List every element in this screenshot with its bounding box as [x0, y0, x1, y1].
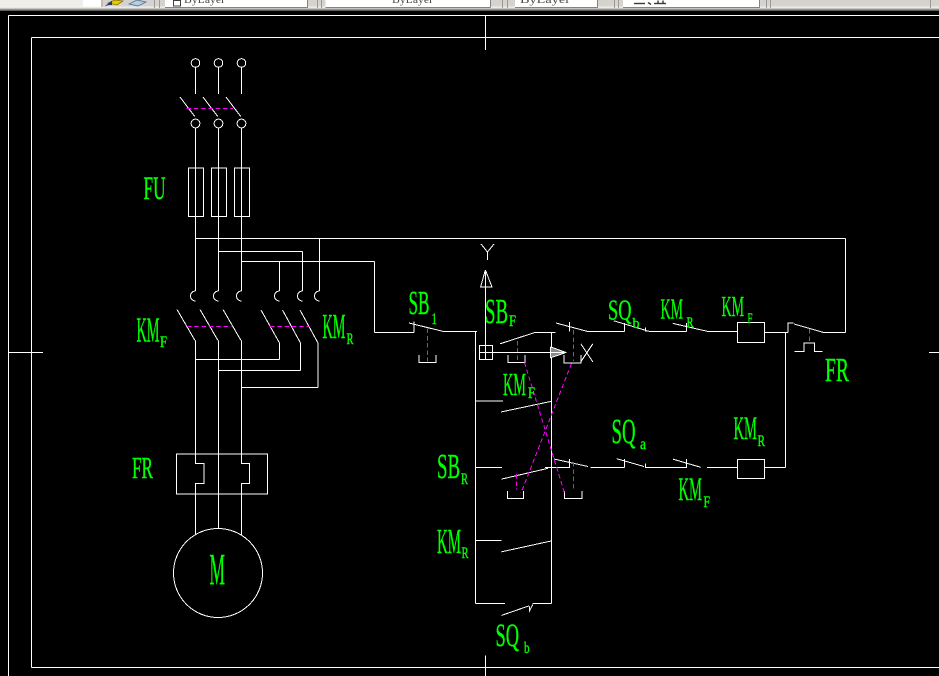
contact KM_F aux blade: [501, 401, 552, 412]
FR actuator dashed: [809, 329, 811, 343]
wire coil to FR junction: [765, 332, 789, 334]
contactor KM_F contact arc 2: [214, 291, 219, 301]
svg-text:SQ: SQ: [612, 412, 636, 451]
wire L1 stem: [195, 67, 197, 94]
wire to motor 1: [195, 494, 197, 535]
inner border top: [32, 37, 939, 39]
limit switch SQ_b blade: [614, 321, 647, 331]
wire KM_F 2 down: [218, 341, 220, 455]
icon: layers (blue diamond): [129, 0, 146, 6]
SQ_b hook: [646, 328, 650, 332]
thermal relay FR box: [177, 454, 268, 494]
branch SQ_b wire: [476, 603, 505, 605]
contactor KM_R contact arc 3: [315, 291, 320, 301]
coil KM_R box: [738, 460, 765, 479]
svg-text:M: M: [210, 545, 226, 594]
centering tick right: [929, 352, 939, 354]
button SB_R bracket (rung1): [564, 355, 581, 363]
limit switch SQ_b (bottom) blade: [502, 606, 530, 616]
svg-text:b: b: [633, 316, 640, 332]
wire KM_F 3 down: [241, 341, 243, 455]
wire through fuse 3 down to contact arc: [241, 168, 243, 291]
svg-text:FR: FR: [825, 352, 849, 389]
rung2 wire mid: [545, 467, 570, 469]
limit switch SQ_b tick: [624, 323, 626, 332]
button SB_F bracket (rung2): [564, 491, 582, 499]
motor M circle: [174, 529, 263, 618]
wire stub to KM_R contact 3: [319, 239, 321, 292]
contact SB_R NC blade (rung1): [556, 323, 587, 331]
rung2 wire to SQ_a: [591, 467, 625, 469]
wire L3 stem: [241, 67, 243, 94]
svg-text:KM: KM: [734, 411, 758, 447]
SB_R long link dashed: [521, 364, 572, 494]
supply terminal L3: [237, 59, 246, 68]
toolbar strip: [0, 0, 939, 11]
node L2 tap: [219, 251, 303, 253]
wire KM_R 3 down: [317, 343, 319, 388]
contactor KM_F contact arc 3: [237, 291, 242, 301]
contactor KM_F contact arc 1: [191, 291, 196, 301]
contact FR NC post: [787, 324, 789, 333]
UCS X letter: [581, 344, 593, 362]
UCS Y axis line: [485, 287, 487, 360]
cross link wire V: [219, 370, 301, 372]
UCS X arrowhead: [551, 347, 566, 358]
svg-text:R: R: [461, 471, 468, 488]
contactor KM_F blade 2: [200, 310, 218, 341]
wire from L3 tap down: [374, 262, 376, 333]
contactor KM_F blade 3: [223, 310, 241, 341]
contactor KM_R contact arc 2: [298, 291, 303, 301]
centering tick top: [485, 16, 487, 51]
svg-text:KM: KM: [323, 307, 346, 346]
button SB1 terminal tick: [413, 322, 415, 333]
switch QS blade 3: [226, 97, 241, 117]
svg-text:F: F: [748, 311, 753, 327]
icon: make layer current (yellow diamond + arrow): [108, 0, 123, 5]
UCS origin box: [480, 346, 493, 360]
wire KM_F 1 down: [195, 341, 197, 455]
wire below QS 2: [218, 128, 220, 168]
wire SB_F to mid: [534, 332, 556, 334]
svg-text:KM: KM: [661, 294, 684, 326]
button SB_R bracket (rung2): [508, 491, 524, 499]
svg-text:b: b: [524, 640, 530, 657]
switch QS blade 1: [180, 97, 195, 117]
outer border left: [8, 16, 10, 676]
branch KM_F aux wire: [476, 400, 504, 402]
node L3 tap: [242, 261, 375, 263]
svg-text:a: a: [640, 436, 646, 453]
button SB1 blade: [409, 323, 444, 332]
centering tick left: [9, 352, 44, 354]
svg-text:SB: SB: [485, 292, 508, 331]
switch QS blade 2: [203, 97, 218, 117]
right rail vertical: [845, 239, 847, 333]
color swatch in combo: [174, 1, 181, 7]
svg-text:F: F: [160, 334, 167, 351]
svg-text:ByLayer: ByLayer: [184, 0, 225, 6]
node L1 tap / control rail top: [196, 238, 846, 240]
contactor KM_F blade 1: [177, 310, 195, 341]
contact KM_F NC post: [686, 459, 688, 468]
svg-text:KM: KM: [437, 522, 461, 561]
wire below QS 3: [241, 128, 243, 168]
contactor KM_R blade 3: [300, 310, 318, 343]
contact KM_R aux blade: [502, 541, 552, 552]
rung2 wire from rail: [476, 467, 503, 469]
wire SB1 to rail: [444, 331, 478, 333]
svg-text:FR: FR: [132, 450, 153, 485]
SQ_b bottom arrow: [529, 605, 533, 611]
svg-text:ByLayer: ByLayer: [520, 0, 570, 6]
KM_F linkage dashed: [187, 326, 232, 328]
switch QS lower contact 2: [214, 119, 223, 128]
contact FR NC start dash: [787, 322, 793, 324]
SB_R NO actuator dashed (rung2): [515, 474, 517, 490]
svg-text:R: R: [347, 331, 354, 348]
svg-text:F: F: [528, 385, 535, 402]
wire coil KM_R out: [765, 467, 786, 469]
wire below QS 1: [195, 128, 197, 168]
wire to coil KM_R: [707, 467, 737, 469]
contactor KM_R contact arc 1: [275, 291, 280, 301]
svg-text:SB: SB: [437, 447, 460, 486]
UCS Y letter: [481, 244, 494, 260]
svg-text:F: F: [704, 494, 711, 511]
svg-text:R: R: [687, 315, 694, 331]
contact KM_F NC blade: [673, 459, 701, 467]
mid vertical rail: [551, 332, 553, 604]
wire through fuse 1 down to contact arc: [195, 168, 197, 291]
UCS icon: [480, 244, 593, 362]
SB_R NC actuator dashed (rung1): [573, 330, 575, 361]
contact SB_F NC blade (rung2): [554, 459, 588, 467]
dashed linkages (control): [428, 329, 810, 494]
KM_R linkage dashed: [270, 326, 310, 328]
wire stub to KM_R contact 1: [279, 262, 281, 292]
inner border bottom: [32, 667, 939, 669]
contact SB_F NC tick (rung2): [569, 459, 571, 468]
svg-text:ByLayer: ByLayer: [392, 0, 433, 6]
svg-text:KM: KM: [137, 311, 160, 350]
wire to KM_R interlock: [649, 331, 687, 333]
wire L2 stem: [218, 67, 220, 94]
FR heater element phase 1: [196, 454, 205, 494]
FR release symbol: [795, 343, 823, 351]
switch QS lower contact 3: [237, 119, 246, 128]
coil KM_F box: [738, 323, 765, 343]
wire to SB1: [375, 332, 415, 334]
fuse FU 3: [235, 168, 250, 217]
svg-text:KM: KM: [722, 291, 745, 323]
UCS Y arrowhead: [481, 270, 492, 287]
vertical rung2 to rung1: [785, 333, 787, 468]
SB1 actuator dashed: [427, 329, 429, 362]
svg-text:FU: FU: [144, 171, 166, 207]
fuse FU 1: [189, 168, 204, 217]
contact KM_R NC post: [686, 323, 688, 331]
SB_F long link dashed: [525, 363, 565, 494]
svg-text:SQ: SQ: [496, 618, 520, 654]
contact FR NC blade: [794, 324, 823, 332]
svg-text:KM: KM: [503, 366, 526, 402]
wire through fuse 2 down to contact arc: [218, 168, 220, 291]
SQ_a hook: [646, 464, 650, 468]
svg-text:R: R: [758, 433, 766, 450]
UCS X axis line: [480, 352, 552, 354]
groove separators: [155, 0, 931, 8]
centering tick bottom: [485, 656, 487, 676]
wire to coil KM_F: [708, 331, 737, 333]
rung2 wire to KM_F interlock: [649, 467, 687, 469]
button SB_R NO blade: [502, 468, 548, 479]
SB_F actuator dashed (rung1): [517, 341, 519, 361]
contactor KM_R blade 1: [261, 310, 280, 343]
wire stub to KM_R contact 2: [302, 252, 304, 292]
left rail vertical: [475, 332, 477, 604]
wire SQ_b to mid rail: [533, 603, 552, 605]
QS linkage dashed: [187, 108, 234, 110]
button SB_F blade: [500, 333, 534, 344]
SB_F NC actuator dashed (rung2): [573, 462, 575, 491]
branch KM_R aux wire: [476, 540, 502, 542]
switch QS lower contact 1: [191, 119, 200, 128]
text bottoms (cut-off "ByLayer"): [184, 0, 570, 6]
wire FR to right rail: [823, 332, 846, 334]
svg-text:SQ: SQ: [608, 296, 632, 327]
cross link wire U: [196, 359, 280, 361]
svg-text:SB: SB: [409, 285, 430, 322]
button SB_F bracket (rung1): [508, 355, 525, 362]
wire KM_R 1 down: [279, 343, 281, 360]
wire to motor 3: [241, 494, 243, 535]
wire to SQ_b: [587, 331, 625, 333]
contact KM_R NC blade: [673, 323, 708, 331]
outer border top: [9, 15, 939, 17]
wire to motor 2: [218, 494, 220, 529]
FR heater element phase 3: [242, 454, 250, 494]
limit switch SQ_a blade: [617, 459, 644, 467]
cross link wire W: [242, 387, 319, 389]
svg-text:1: 1: [432, 311, 438, 328]
limit switch SQ_a tick: [624, 459, 626, 468]
FR phase 2 wire straight: [218, 454, 220, 494]
svg-text:R: R: [462, 545, 469, 562]
contact SB_R NC tick (rung1): [569, 322, 571, 332]
supply terminal L1: [191, 59, 200, 68]
wire KM_R 2 down: [300, 343, 302, 371]
inner border left: [31, 38, 33, 668]
fuse FU 2: [212, 168, 227, 217]
supply terminal L2: [214, 59, 223, 68]
contactor KM_R blade 2: [283, 310, 301, 343]
button SB1 bracket: [419, 355, 436, 362]
svg-text:F: F: [509, 313, 516, 330]
svg-text:KM: KM: [679, 472, 703, 508]
